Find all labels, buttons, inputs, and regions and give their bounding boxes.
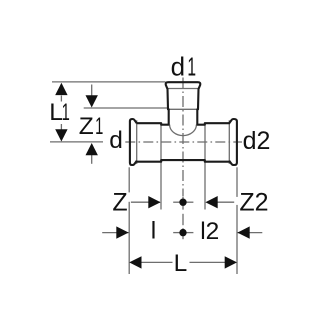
junction dot l row: [179, 229, 186, 236]
Z2 arrow left: [205, 196, 217, 208]
l arrow right: [116, 226, 128, 238]
svg-text:l: l: [151, 218, 156, 245]
svg-text:Z: Z: [79, 113, 94, 140]
svg-text:1: 1: [62, 99, 70, 126]
L1 dimension stem lower: [60, 124, 62, 130]
L dimension line left segment: [141, 261, 173, 263]
tee fitting outline: [130, 82, 237, 165]
branch bead inner line: [168, 88, 198, 90]
extension line fitting right end lower part: [236, 205, 238, 274]
socket end line left: [160, 124, 162, 210]
svg-text:d2: d2: [243, 127, 271, 155]
svg-text:Z: Z: [112, 189, 127, 217]
Z row whisker left of dot: [173, 201, 179, 203]
l2 dimension tail line: [237, 232, 262, 234]
svg-text:1: 1: [95, 113, 103, 140]
extension line fitting left end lower part: [128, 202, 130, 274]
horizontal centerline dash-dot: [125, 141, 242, 143]
svg-text:d: d: [109, 127, 123, 154]
l row whisker left of dot: [173, 232, 179, 234]
reference line top (branch top level): [52, 81, 166, 83]
Z arrow right: [148, 196, 160, 208]
l dimension tail line: [102, 232, 129, 234]
l2 arrow left: [237, 226, 249, 238]
Z1 dimension stem upper: [91, 85, 93, 97]
centerline solid at dot Z row: [182, 197, 184, 210]
Z dimension line: [131, 201, 160, 203]
svg-text:Z2: Z2: [239, 189, 268, 217]
bead inner line left socket: [136, 120, 138, 164]
socket end line right: [204, 124, 206, 210]
L1 dimension stem upper: [60, 96, 62, 102]
Z1 arrow up: [86, 143, 98, 155]
L arrow left: [129, 256, 141, 268]
svg-text:d: d: [171, 52, 185, 82]
svg-text:L: L: [49, 99, 63, 126]
Z1 arrow down: [86, 95, 98, 107]
Z row whisker right of dot: [187, 201, 194, 203]
svg-text:L: L: [174, 250, 188, 277]
L arrow right: [225, 256, 237, 268]
svg-text:1: 1: [187, 53, 196, 82]
L dimension line right segment: [190, 261, 226, 263]
L1 arrow down: [55, 129, 67, 141]
arrowheads: [55, 83, 250, 269]
reference line left at axis level: [50, 141, 103, 143]
Z2 dimension line: [218, 201, 235, 203]
L1 arrow up: [55, 83, 67, 95]
centerline solid through l row dot: [182, 228, 184, 239]
vertical branch centerline dash-dot: [182, 78, 184, 197]
junction dot Z row: [179, 199, 186, 206]
extension line fitting right end: [236, 167, 238, 197]
bead inner line right socket: [228, 120, 230, 164]
branch bore saddle arc: [170, 125, 197, 136]
l row whisker right of dot: [187, 232, 194, 234]
branch socket end line: [169, 108, 197, 110]
reference line branch socket depth level: [84, 107, 168, 109]
extension line fitting left end: [128, 167, 130, 192]
svg-text:l2: l2: [200, 218, 219, 245]
Z1 dimension stem lower: [91, 155, 93, 164]
centerline solid at dot l row: [182, 214, 184, 225]
